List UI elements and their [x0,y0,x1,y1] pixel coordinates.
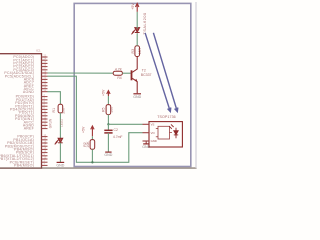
wire R5 to node [107,115,109,125]
outer frame right edge (faint) [195,2,197,168]
LED LED1 TSAL6200 [131,28,139,35]
IR beam arrows [145,33,178,112]
wire node to C2 [107,124,109,130]
ground (TSOP) [143,143,149,145]
svg-text:GND: GND [56,164,64,168]
svg-text:10R: 10R [138,48,142,55]
wire R3 to LED1 [136,33,138,46]
svg-text:4.7K: 4.7K [115,68,123,72]
ground (T2 emitter) [133,93,141,95]
svg-text:GND: GND [104,153,112,157]
wire R1 to LED2 [59,113,61,138]
IC IC1 MEGA8-P box [0,54,42,168]
resistor R2 pull-up [90,140,95,150]
TSOP1736 IR receiver [143,115,183,147]
transistor T2 BC337 [132,57,138,94]
svg-text:PB4(MISO): PB4(MISO) [14,164,34,168]
svg-text:TSOP1736: TSOP1736 [157,115,176,119]
wire net SDA to R4 [48,72,114,74]
resistor R1 [58,104,63,113]
svg-text:GND: GND [151,139,157,143]
capacitor C2 [104,130,112,133]
frame (purple drawing frame) [74,3,191,166]
+5V supply (top) [136,3,139,11]
ground (C2) [105,151,111,153]
wire R2 to output net [91,149,93,162]
svg-text:390: 390 [62,108,66,114]
svg-text:+5V: +5V [101,89,105,96]
node junction (output net) [91,161,93,163]
svg-text:TSAL6200: TSAL6200 [142,12,147,34]
svg-text:GRUN: GRUN [49,118,53,128]
svg-text:BC337: BC337 [141,73,152,77]
svg-text:R3: R3 [131,49,135,54]
wire net PD0 to green LED resistor [48,92,61,105]
resistor R5 [106,105,111,115]
svg-text:GND: GND [142,145,150,149]
wire LED1 to +5V [136,12,138,28]
gray overlay on IC bottom edge [0,167,42,169]
frame bottom gray line [0,167,197,169]
+5V supply (pull-up branch) [91,126,94,136]
wire +5V to R2 [91,136,93,139]
svg-text:GND: GND [133,95,141,99]
wire C2 to GND [107,133,109,152]
wire TSOP GND pin to ground [146,141,149,144]
node junction (VS net) [107,123,109,125]
TSOP photodiode [169,124,178,138]
IC pin stubs [42,57,48,165]
wire LED2 to GND [59,143,61,162]
IC pin numbers [44,54,47,165]
svg-text:VS: VS [151,122,155,126]
wire R4 to base [122,72,130,74]
svg-text:AREF: AREF [24,127,35,131]
wire +5V to R5 [107,96,109,105]
resistor R3 [135,46,140,57]
svg-text:+5V: +5V [131,3,135,10]
TSOP inner block [158,126,170,139]
svg-text:10K: 10K [86,141,90,148]
svg-text:+5V: +5V [82,126,86,133]
svg-text:LED2: LED2 [60,119,64,127]
svg-text:R4: R4 [117,76,121,80]
ground (LED2) [57,161,65,163]
+5V supply (TSOP filter branch) [107,91,110,96]
svg-text:IC1: IC1 [36,49,41,53]
svg-text:4.7mF: 4.7mF [113,135,123,139]
resistor R4 [113,71,122,75]
IC pin labels [0,55,35,167]
svg-text:R1: R1 [52,108,56,113]
svg-text:R5: R5 [102,108,106,113]
svg-text:T2: T2 [142,68,146,72]
svg-text:C2: C2 [114,128,118,132]
svg-text:100: 100 [109,107,113,113]
wire net SCL to TSOP output [48,76,143,162]
wire node to TSOP VS [108,123,142,125]
LED LED2 green [55,138,63,144]
TSOP pin stubs [143,124,150,141]
svg-text:AGND: AGND [23,90,34,94]
